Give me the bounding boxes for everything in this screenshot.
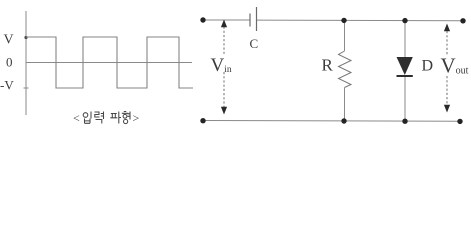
svg-text:C: C — [250, 36, 259, 51]
bottom wire — [203, 120, 460, 123]
caption hangul 파 — [110, 112, 121, 124]
svg-text:D: D — [422, 58, 434, 75]
Vout arrow dashed line lower — [446, 76, 448, 105]
svg-text:V: V — [4, 33, 14, 48]
svg-text:>: > — [133, 111, 140, 125]
node dot bottom-right — [457, 119, 462, 124]
node dot bottom D — [402, 119, 407, 124]
Vin arrow dashed line lower — [223, 72, 225, 108]
waveform vertical axis — [25, 11, 27, 115]
node dot top-left — [200, 17, 205, 22]
top wire right of capacitor — [257, 19, 464, 22]
svg-text:-V: -V — [0, 78, 14, 93]
caption hangul 형 — [122, 112, 130, 124]
svg-text:Vout: Vout — [441, 54, 469, 78]
waveform zero axis — [26, 62, 192, 64]
svg-text:0: 0 — [6, 55, 13, 70]
Vin arrow dashed line upper — [223, 27, 225, 55]
diode D bottom lead — [404, 77, 406, 121]
top wire left of capacitor — [203, 19, 250, 21]
svg-text:Vin: Vin — [211, 55, 232, 76]
caption hangul 입 — [83, 112, 91, 124]
resistor R zigzag — [339, 51, 352, 88]
node dot bottom-left — [200, 118, 205, 123]
Vout arrowhead down — [444, 105, 450, 113]
diode D top lead — [404, 20, 406, 58]
node dot top R — [341, 18, 346, 23]
Vout arrow dashed line upper — [446, 31, 448, 55]
Vout arrowhead up — [444, 24, 450, 32]
axis tick at -V — [24, 87, 29, 89]
node dot top D — [402, 18, 407, 23]
svg-text:R: R — [322, 56, 334, 75]
svg-text:<: < — [73, 111, 80, 125]
node dot top-right — [460, 18, 465, 23]
node junction at V level — [24, 36, 27, 39]
node dot bottom R — [341, 118, 346, 123]
diode D triangle — [397, 57, 413, 75]
resistor R bottom lead — [344, 88, 346, 122]
square wave trace — [26, 37, 193, 88]
caption hangul 력 — [95, 112, 104, 124]
diode D cathode bar — [397, 75, 413, 77]
Vin arrowhead up — [221, 20, 227, 28]
Vin arrowhead down — [221, 107, 227, 115]
capacitor C plates — [249, 14, 251, 27]
resistor R branch top lead — [344, 20, 346, 51]
